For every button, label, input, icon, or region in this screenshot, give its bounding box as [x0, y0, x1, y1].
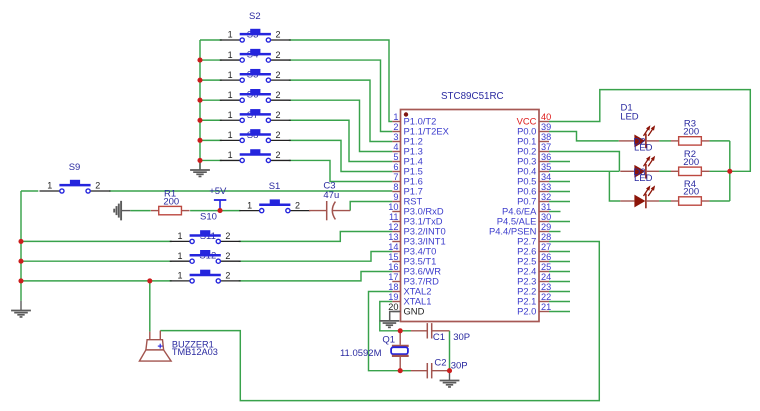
- pin 25 P2.4: [517, 262, 551, 277]
- pin 39 P0.0: [517, 122, 551, 137]
- label S10: [200, 211, 217, 222]
- pin 28 P2.7: [517, 232, 551, 247]
- wire button row 6 to pin 6: [289, 140, 393, 171]
- ground below S2 column rail: [190, 160, 210, 176]
- wire stub pin 22: [549, 301, 570, 303]
- junction S2 rail row 5: [197, 118, 202, 123]
- junction far-left rail y=261.2: [18, 259, 23, 264]
- svg-text:2: 2: [275, 130, 280, 140]
- pushbutton S13 unlabelled: [170, 270, 241, 283]
- svg-text:10: 10: [388, 202, 398, 212]
- svg-text:1: 1: [228, 90, 233, 100]
- svg-text:31: 31: [541, 202, 551, 212]
- svg-text:TMB12A03: TMB12A03: [172, 347, 218, 357]
- ground pin 20 GND: [380, 312, 401, 328]
- pin 34 P0.5: [517, 172, 551, 187]
- svg-text:LED: LED: [634, 143, 653, 154]
- wire S2-column row 1 left segment: [200, 39, 222, 41]
- pin 7 P1.6: [392, 172, 422, 187]
- wire button row 1 to pin 1: [289, 40, 393, 122]
- wire stub pin 34: [549, 181, 570, 183]
- wire stub pin 21: [549, 311, 570, 313]
- wire button row 7 to pin 7: [289, 160, 393, 181]
- svg-text:2: 2: [275, 50, 280, 60]
- wire R1 to S1 (through +5V tap): [190, 210, 240, 212]
- wire stub pin 30: [549, 221, 570, 223]
- svg-text:18: 18: [388, 282, 398, 292]
- label Q1: [382, 335, 395, 346]
- wire S2-column row 5 left segment: [200, 119, 222, 121]
- svg-text:1: 1: [228, 50, 233, 60]
- label S1: [269, 181, 281, 192]
- ground below C2: [440, 371, 460, 387]
- wire P0.4 branch down to LED row 3: [609, 171, 620, 201]
- pin 14 P3.4/T0: [388, 242, 436, 257]
- pin 18 XTAL2: [388, 282, 431, 297]
- pushbutton S5 (S2 column row 3): [220, 69, 291, 82]
- svg-text:2: 2: [225, 271, 230, 281]
- pushbutton S3 (S2 column row 1): [220, 11, 291, 42]
- op-amp U1 body STC89C51RC: [401, 110, 540, 322]
- wire button row 4 to pin 4: [289, 100, 393, 151]
- svg-text:11: 11: [389, 212, 399, 222]
- svg-text:P2.0: P2.0: [517, 305, 536, 316]
- svg-text:GND: GND: [404, 305, 425, 316]
- pin 19 XTAL1: [388, 292, 431, 307]
- wire stub pin 24: [549, 281, 570, 283]
- pin 9 RST: [392, 192, 422, 207]
- wire XTAL1 (pin 19) to crystal top node: [380, 302, 400, 331]
- wire P0.4 (pin 35) to LED row 3: [549, 170, 619, 172]
- label C2 30P: [451, 360, 468, 371]
- junction S2 rail row 7: [197, 158, 202, 163]
- wire P0.0 (pin 39) to LED D2: [549, 132, 619, 141]
- svg-text:32: 32: [541, 192, 551, 202]
- pin 40 VCC: [517, 112, 552, 127]
- svg-text:20: 20: [388, 302, 398, 312]
- svg-text:38: 38: [541, 132, 551, 142]
- svg-text:29: 29: [541, 222, 551, 232]
- wire resistor to right rail at y=171.3: [710, 170, 730, 172]
- label D1 LED: [620, 112, 639, 123]
- svg-text:25: 25: [541, 262, 551, 272]
- svg-text:11.0592M: 11.0592M: [340, 348, 382, 359]
- svg-text:22: 22: [541, 292, 551, 302]
- svg-text:2: 2: [275, 150, 280, 160]
- node junction +5V on wire: [217, 208, 222, 213]
- svg-text:7: 7: [393, 172, 398, 182]
- svg-text:12: 12: [388, 222, 398, 232]
- pushbutton S6 (S2 column row 4): [220, 89, 291, 102]
- pushbutton S12: [170, 250, 241, 263]
- pushbutton S11: [170, 230, 241, 243]
- svg-text:6: 6: [393, 162, 398, 172]
- svg-text:200: 200: [683, 127, 699, 138]
- svg-text:47u: 47u: [323, 190, 339, 201]
- resistor R4 200: [671, 179, 710, 205]
- svg-text:+5V: +5V: [209, 186, 227, 197]
- svg-text:4: 4: [393, 142, 398, 152]
- pin 11 P3.1/TxD: [389, 212, 443, 227]
- wire stub pin 25: [549, 271, 570, 273]
- svg-text:1: 1: [228, 70, 233, 80]
- pin 20 GND: [388, 302, 424, 317]
- wire bottom row 2 to pin 14: [239, 252, 393, 262]
- pushbutton S9: [40, 162, 111, 193]
- svg-text:2: 2: [275, 90, 280, 100]
- svg-text:37: 37: [541, 142, 551, 152]
- junction S2 rail row 2: [197, 58, 202, 63]
- svg-text:36: 36: [541, 152, 551, 162]
- svg-text:S9: S9: [69, 162, 81, 173]
- wire C3 to RST (pin 9): [350, 202, 392, 211]
- label C1 30P: [453, 332, 470, 343]
- svg-text:15: 15: [388, 252, 398, 262]
- wire button row 3 to pin 3: [289, 80, 393, 141]
- svg-text:1: 1: [228, 110, 233, 120]
- label D1: [621, 103, 633, 114]
- svg-text:28: 28: [541, 232, 551, 242]
- wire LED cathode to resistor at y=171.3: [659, 170, 671, 172]
- junction far-left rail y=241.4: [18, 239, 23, 244]
- ground left of R1 (rotated): [114, 201, 130, 221]
- crystal Q1: [391, 331, 409, 371]
- svg-text:2: 2: [225, 251, 230, 261]
- svg-text:S10: S10: [200, 211, 217, 222]
- svg-text:21: 21: [541, 302, 551, 312]
- wire S9 left segment to rail: [21, 190, 38, 192]
- wire resistor to right rail at y=140.9: [710, 140, 730, 142]
- pin 31 P4.6/EA: [502, 202, 551, 217]
- pushbutton S1: [239, 199, 310, 212]
- svg-text:200: 200: [683, 187, 699, 198]
- wire crystal bottom node to C2: [400, 370, 411, 372]
- wire far-left rail: [20, 191, 22, 301]
- junction far-left rail y=280.9: [18, 278, 23, 283]
- svg-text:8: 8: [393, 182, 398, 192]
- svg-text:2: 2: [275, 30, 280, 40]
- wire crystal top node to C1: [400, 330, 411, 332]
- svg-text:S1: S1: [269, 181, 281, 192]
- wire bottom row 3 to pin 16: [239, 272, 393, 281]
- svg-text:1: 1: [228, 30, 233, 40]
- wire bottom row 3 left segment: [21, 280, 172, 282]
- ground far-left rail: [11, 301, 31, 317]
- svg-text:30P: 30P: [453, 332, 470, 343]
- svg-text:C1: C1: [433, 332, 445, 343]
- svg-text:1: 1: [228, 130, 233, 140]
- wire S2-column row 7 left segment: [200, 159, 222, 161]
- wire bottom row 2 left segment: [21, 260, 172, 262]
- label 11.0592M: [340, 348, 382, 359]
- svg-text:16: 16: [388, 262, 398, 272]
- pushbutton S4 (S2 column row 2): [220, 49, 291, 62]
- pin 3 P1.2: [392, 132, 422, 147]
- svg-text:1: 1: [177, 271, 182, 281]
- svg-text:LED: LED: [620, 112, 639, 123]
- wire stub pin 32: [549, 201, 570, 203]
- label chip title STC89C51RC: [441, 91, 504, 102]
- junction LED resistor rail: [727, 169, 732, 174]
- wire buzzer to P2.7 (pin 28) via bottom: [160, 242, 599, 401]
- pushbutton S8 (S2 column row 6): [220, 129, 291, 142]
- svg-text:5: 5: [393, 152, 398, 162]
- pin 30 P4.5/ALE: [497, 212, 551, 227]
- wire stub pin 29: [549, 231, 561, 233]
- svg-text:Q1: Q1: [382, 335, 395, 346]
- label C1: [433, 332, 445, 343]
- svg-text:2: 2: [393, 122, 398, 132]
- label TMB12A03: [172, 347, 218, 357]
- wire S2-column row 4 left segment: [200, 99, 222, 101]
- svg-text:3: 3: [393, 132, 398, 142]
- junction C2 ground node: [447, 368, 452, 373]
- svg-text:2: 2: [275, 70, 280, 80]
- wire stub pin 26: [549, 261, 570, 263]
- svg-text:S2: S2: [249, 11, 261, 22]
- svg-text:200: 200: [683, 157, 699, 168]
- svg-text:C2: C2: [434, 357, 446, 368]
- label C2: [434, 357, 446, 368]
- svg-text:2: 2: [95, 181, 100, 191]
- wire button row3 junction down to buzzer: [149, 281, 151, 332]
- svg-text:13: 13: [388, 232, 398, 242]
- LED D2 (row 1): [619, 125, 659, 153]
- svg-text:24: 24: [541, 272, 551, 282]
- pin 35 P0.4: [517, 162, 551, 177]
- wire C1 right to C2 ground node: [449, 331, 451, 371]
- wire stub pin 36: [549, 161, 570, 163]
- svg-text:33: 33: [541, 182, 551, 192]
- wire LED cathode to resistor at y=201: [659, 200, 671, 202]
- wire ground to R1: [130, 210, 150, 212]
- pin 1 P1.0/T2: [392, 112, 436, 127]
- svg-text:39: 39: [541, 122, 551, 132]
- resistor R1 200: [151, 188, 190, 214]
- pin 17 P3.7/RD: [388, 272, 439, 287]
- wire P0.2 (pin 37) to LED D3: [549, 152, 619, 172]
- svg-text:1: 1: [177, 231, 182, 241]
- pin 10 P3.0/RxD: [388, 202, 444, 217]
- LED row 3: [620, 185, 659, 208]
- junction S2 rail row 3: [197, 78, 202, 83]
- pin 8 P1.7: [392, 182, 422, 197]
- junction S2 rail row 6: [197, 138, 202, 143]
- svg-text:1: 1: [247, 200, 252, 210]
- wire right resistor rail: [729, 141, 731, 201]
- svg-text:23: 23: [541, 282, 551, 292]
- pin 33 P0.6: [517, 182, 551, 197]
- svg-text:1: 1: [47, 181, 52, 191]
- wire LED cathode to resistor at y=140.9: [659, 140, 671, 142]
- pin 23 P2.2: [517, 282, 551, 297]
- pin 13 P3.3/INT1: [388, 232, 445, 247]
- label 47u: [323, 190, 339, 201]
- resistor R3 200: [671, 119, 710, 145]
- capacitor C2 30P: [411, 363, 450, 378]
- junction crystal bottom node: [398, 368, 403, 373]
- svg-text:26: 26: [541, 252, 551, 262]
- svg-text:1: 1: [177, 251, 182, 261]
- wire S2-column row 6 left segment: [200, 139, 222, 141]
- pin 36 P0.3: [517, 152, 551, 167]
- pin 27 P2.6: [517, 242, 551, 257]
- buzzer BUZZER1 symbol: [139, 331, 171, 362]
- svg-text:30: 30: [541, 212, 551, 222]
- svg-text:2: 2: [295, 200, 300, 210]
- svg-text:200: 200: [163, 196, 179, 207]
- pin 38 P0.1: [517, 132, 551, 147]
- svg-text:34: 34: [541, 172, 551, 182]
- power +5V symbol: [214, 200, 226, 211]
- junction buzzer tap: [147, 278, 152, 283]
- svg-text:19: 19: [388, 292, 398, 302]
- svg-text:LED: LED: [634, 173, 653, 184]
- svg-text:40: 40: [541, 112, 551, 122]
- wire bottom row 1 left segment: [21, 240, 172, 242]
- wire button row 2 to pin 2: [289, 60, 393, 131]
- capacitor C1 30P: [411, 323, 450, 338]
- svg-text:30P: 30P: [451, 360, 468, 371]
- wire stub pin 33: [549, 191, 570, 193]
- pushbutton S-unlabelled (S2 column row 7): [220, 149, 291, 162]
- pin 5 P1.4: [392, 152, 422, 167]
- junction S2 rail row 4: [197, 98, 202, 103]
- pin 26 P2.5: [517, 252, 551, 267]
- wire S9 output to pin 8 (P1.7): [109, 190, 392, 192]
- pushbutton S7 (S2 column row 5): [220, 109, 291, 122]
- svg-text:1: 1: [393, 112, 398, 122]
- pin 24 P2.3: [517, 272, 551, 287]
- svg-text:27: 27: [541, 242, 551, 252]
- pin 4 P1.3: [392, 142, 422, 157]
- junction crystal top node: [398, 328, 403, 333]
- label BUZZER1: [172, 339, 214, 349]
- wire S2-column left rail: [199, 40, 201, 170]
- pin 15 P3.5/T1: [388, 252, 436, 267]
- pin 32 P0.7: [517, 192, 551, 207]
- wire resistor to right rail at y=201: [710, 200, 730, 202]
- pin 6 P1.5: [392, 162, 422, 177]
- svg-text:14: 14: [388, 242, 398, 252]
- wire stub pin 23: [549, 291, 570, 293]
- svg-text:1: 1: [228, 150, 233, 160]
- wire bottom row 1 to pin 12: [239, 232, 393, 242]
- resistor R2 200: [671, 149, 710, 175]
- wire button row 5 to pin 5: [289, 120, 393, 161]
- svg-text:2: 2: [275, 110, 280, 120]
- pin 21 P2.0: [517, 302, 551, 317]
- svg-text:9: 9: [393, 192, 398, 202]
- capacitor C3 47u: [309, 201, 350, 220]
- wire stub pin 27: [549, 251, 570, 253]
- svg-text:17: 17: [388, 272, 398, 282]
- svg-text:35: 35: [541, 162, 551, 172]
- pin 12 P3.2/INT0: [388, 222, 445, 237]
- LED D3 (row 2): [620, 156, 659, 184]
- pin 2 P1.1/T2EX: [392, 122, 449, 137]
- label +5V: [209, 186, 227, 197]
- wire S2-column row 2 left segment: [200, 59, 222, 61]
- svg-text:2: 2: [225, 231, 230, 241]
- wire VCC (pin 40) to top rail: [549, 90, 750, 172]
- pin 29 P4.4/PSEN: [489, 222, 551, 237]
- pin 16 P3.6/WR: [388, 262, 441, 277]
- label C3: [323, 181, 335, 192]
- wire XTAL2 (pin 18) to crystal bottom node: [369, 292, 401, 371]
- svg-text:STC89C51RC: STC89C51RC: [441, 91, 504, 102]
- pin 37 P0.2: [517, 142, 551, 157]
- wire stub pin 31: [549, 211, 561, 213]
- wire S2-column row 3 left segment: [200, 79, 222, 81]
- pin 22 P2.1: [517, 292, 551, 307]
